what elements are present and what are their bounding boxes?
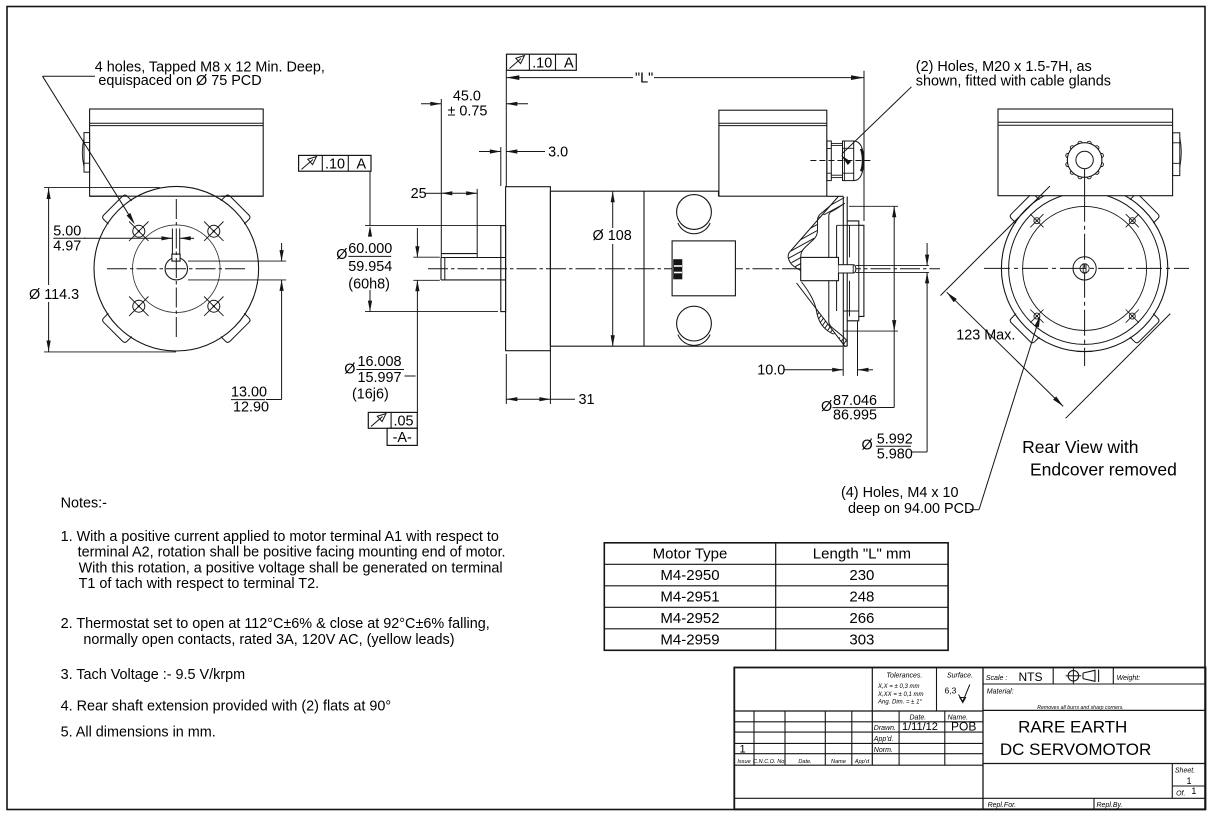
svg-text:shown, fitted with cable gland: shown, fitted with cable glands — [916, 74, 1111, 90]
front view shaft circle — [165, 258, 187, 280]
title block outline — [734, 668, 1205, 810]
side view endbell cone outer surface lower — [797, 283, 845, 346]
svg-text:230: 230 — [849, 567, 874, 584]
leader 2 holes M20 note — [842, 87, 912, 154]
dimension dia 87.046/86.995 rear spigot — [849, 205, 898, 207]
svg-text:X,X = ± 0,3 mm: X,X = ± 0,3 mm — [877, 684, 919, 690]
svg-text:Notes:-: Notes:- — [61, 495, 108, 511]
svg-text:Of.: Of. — [1176, 791, 1185, 798]
svg-text:Ø: Ø — [344, 362, 355, 378]
svg-text:4. Rear shaft extension provi: 4. Rear shaft extension provided with (2… — [61, 699, 392, 715]
drawing title — [983, 763, 1206, 765]
rear view housing circles — [1001, 185, 1167, 351]
front view vertical centerline — [175, 199, 177, 339]
svg-text:Name: Name — [831, 759, 846, 765]
svg-text:248: 248 — [849, 588, 874, 605]
svg-text:Ø: Ø — [862, 437, 873, 453]
rear view shaft end boss — [1073, 257, 1096, 280]
svg-text:1. With a positive current app: 1. With a positive current applied to mo… — [61, 529, 499, 545]
svg-text:Date.: Date. — [798, 759, 811, 765]
svg-text:1: 1 — [740, 743, 746, 755]
svg-text:.10: .10 — [532, 55, 552, 71]
svg-text:60.000: 60.000 — [348, 241, 392, 257]
rear view box side connector — [1173, 133, 1180, 176]
side view gland centerline — [810, 160, 872, 162]
side view endbell inner surface lower — [829, 281, 847, 342]
side view terminal stripe block — [673, 259, 682, 279]
rear view clamp bumps — [1130, 193, 1160, 223]
front view clamp bumps — [221, 194, 251, 224]
svg-text:86.995: 86.995 — [833, 408, 877, 424]
svg-text:5. All dimensions in mm.: 5. All dimensions in mm. — [61, 724, 216, 740]
svg-text:Sheet.: Sheet. — [1175, 768, 1195, 775]
svg-text:13.00: 13.00 — [231, 385, 267, 401]
title block left grid — [734, 710, 983, 712]
svg-text:Motor Type: Motor Type — [653, 546, 728, 563]
svg-text:Surface.: Surface. — [947, 672, 973, 679]
side view motor body outline — [550, 190, 718, 192]
rear view horizontal centerline — [984, 267, 1189, 269]
svg-text:X,XX = ± 0,1 mm: X,XX = ± 0,1 mm — [877, 692, 923, 698]
rear view gland centerline — [1084, 169, 1086, 196]
leader 4 holes M4 note — [979, 321, 1039, 510]
dimension 5.00/4.97 keyway width — [171, 229, 173, 255]
svg-text:303: 303 — [849, 631, 874, 648]
side view break line lower — [802, 282, 834, 334]
rear view M4 screw holes — [1034, 218, 1040, 224]
svg-text:3.0: 3.0 — [548, 144, 568, 160]
side view shaft — [440, 258, 442, 280]
svg-text:POB: POB — [951, 720, 976, 734]
scale weight row — [983, 683, 1206, 685]
svg-text:5.992: 5.992 — [877, 431, 913, 447]
svg-text:10.0: 10.0 — [757, 363, 785, 379]
side view endbell inner surface upper — [829, 204, 844, 258]
side view mounting flange — [506, 187, 551, 351]
svg-text:equispaced on Ø 75 PCD: equispaced on Ø 75 PCD — [98, 73, 261, 89]
svg-text:Drawn.: Drawn. — [874, 725, 896, 732]
side view rear shaft stub — [839, 265, 856, 273]
svg-text:6,3: 6,3 — [945, 685, 957, 695]
svg-text:Ø 108: Ø 108 — [593, 228, 632, 244]
svg-text:Endcover removed: Endcover removed — [1030, 460, 1177, 480]
front view pilot spigot circle — [133, 225, 221, 313]
svg-text:1: 1 — [1187, 776, 1192, 786]
sheet cell — [1171, 764, 1173, 799]
datum frame .05 runout — [368, 412, 417, 428]
svg-text:"L": "L" — [635, 70, 653, 86]
svg-text:A: A — [564, 56, 574, 72]
dimension 13.00/12.90 keyway depth — [188, 260, 286, 262]
side view shaft centerline — [428, 268, 940, 270]
dimension 45.0 +-0.75 shaft extension — [440, 99, 442, 258]
dimension dia 114.3 — [44, 187, 160, 189]
svg-text:16.008: 16.008 — [358, 354, 402, 370]
rear view vertical centerline — [1084, 196, 1086, 366]
side view break line upper — [801, 206, 831, 258]
svg-text:Rear View with: Rear View with — [1022, 437, 1138, 457]
svg-text:Norm.: Norm. — [874, 747, 893, 754]
svg-text:deep on 94.00 PCD: deep on 94.00 PCD — [848, 501, 974, 517]
svg-text:-A-: -A- — [393, 430, 412, 446]
svg-text:.05: .05 — [394, 413, 414, 429]
svg-text:Ø: Ø — [821, 399, 832, 415]
dimension 3.0 spigot protrusion — [500, 147, 502, 186]
side view endcover profile — [847, 221, 864, 321]
svg-text:25: 25 — [411, 186, 427, 202]
svg-text:M4-2950: M4-2950 — [660, 567, 719, 584]
svg-text:± 0.75: ± 0.75 — [448, 104, 488, 120]
side view shaft key — [441, 253, 477, 255]
svg-text:Issue: Issue — [737, 759, 750, 765]
svg-text:RARE EARTH: RARE EARTH — [1018, 718, 1127, 737]
side view cable gland — [827, 141, 831, 181]
svg-text:(60h8): (60h8) — [348, 277, 390, 293]
svg-text:Scale :: Scale : — [986, 675, 1007, 682]
svg-text:Ang. Dim. = ± 1°: Ang. Dim. = ± 1° — [877, 700, 922, 706]
dimension dia 5.992/5.980 rear stub — [926, 243, 928, 266]
svg-text:T1 of tach with respect to ter: T1 of tach with respect to terminal T2. — [79, 576, 319, 592]
svg-text:C.N.C.O. No.: C.N.C.O. No. — [753, 759, 786, 765]
svg-text:Removes all burrs and sharp co: Removes all burrs and sharp corners. — [1037, 705, 1124, 711]
front view motor housing outer circle — [94, 186, 259, 351]
material row — [983, 709, 1206, 711]
front view keyway square — [172, 254, 180, 261]
rear view cable gland scalloped nut — [1099, 162, 1103, 166]
svg-text:Material:: Material: — [987, 689, 1014, 696]
svg-text:(4) Holes, M4 x 10: (4) Holes, M4 x 10 — [841, 485, 959, 501]
svg-text:NTS: NTS — [1019, 670, 1043, 684]
svg-text:5.980: 5.980 — [877, 446, 913, 462]
side view rear face — [842, 197, 844, 347]
rear view gland inner circle — [1076, 151, 1093, 168]
svg-text:App'd.: App'd. — [873, 736, 894, 743]
motor type table — [604, 543, 948, 651]
svg-text:2. Thermostat set to open at 1: 2. Thermostat set to open at 112°C±6% & … — [61, 616, 490, 632]
svg-text:1: 1 — [1191, 786, 1196, 796]
repl row — [1093, 798, 1095, 809]
svg-text:59.954: 59.954 — [348, 259, 392, 275]
dimension 123 max across flats — [941, 186, 1050, 295]
svg-text:M4-2951: M4-2951 — [660, 588, 719, 605]
svg-text:15.997: 15.997 — [358, 370, 402, 386]
svg-text:12.90: 12.90 — [233, 399, 269, 415]
svg-text:123 Max.: 123 Max. — [956, 328, 1015, 344]
svg-text:Ø 114.3: Ø 114.3 — [29, 287, 79, 303]
svg-text:.10: .10 — [325, 156, 345, 172]
side view through-bolt heads — [677, 195, 712, 230]
front view box bottom edge — [90, 195, 124, 197]
side view front housing separator — [643, 191, 645, 346]
dimension 31 flange width — [505, 354, 507, 404]
svg-text:DC SERVOMOTOR: DC SERVOMOTOR — [1000, 740, 1151, 759]
svg-text:With this rotation, a positive: With this rotation, a positive voltage s… — [79, 560, 503, 576]
svg-text:87.046: 87.046 — [833, 393, 877, 409]
svg-text:Weight:: Weight: — [1117, 675, 1141, 682]
svg-text:M4-2952: M4-2952 — [660, 610, 719, 627]
front view terminal box — [90, 109, 264, 196]
side view endbell cone outer surface upper — [788, 197, 838, 271]
dimension dia 60.000/59.954 spigot — [369, 171, 371, 225]
svg-text:Repl.For.: Repl.For. — [988, 802, 1017, 809]
svg-text:Length "L" mm: Length "L" mm — [813, 546, 911, 563]
dimension L overall length — [505, 70, 507, 186]
svg-text:31: 31 — [579, 392, 595, 408]
title block main divider — [982, 668, 984, 810]
dimension dia 16.008/15.997 shaft — [413, 256, 440, 258]
svg-text:3. Tach Voltage :- 9.5 V/krpm: 3. Tach Voltage :- 9.5 V/krpm — [61, 667, 246, 683]
datum feature frame .10 A top — [507, 54, 577, 70]
front view horizontal centerline — [107, 268, 247, 270]
side view brush cover plate — [672, 241, 735, 296]
rear stub extension lines for dia 5.992 — [856, 265, 929, 267]
dimension 25 key length — [476, 189, 478, 258]
svg-text:45.0: 45.0 — [453, 89, 481, 105]
svg-text:5.00: 5.00 — [53, 223, 81, 239]
projection symbol — [1068, 671, 1079, 682]
svg-text:(16j6): (16j6) — [352, 387, 389, 403]
svg-text:1/11/12: 1/11/12 — [902, 721, 938, 733]
side view terminal box — [719, 110, 827, 196]
side view rear bearing boss — [801, 257, 839, 280]
side view endbell top edge — [827, 195, 844, 197]
datum feature frame .10 A left — [299, 155, 371, 171]
svg-text:Repl.By.: Repl.By. — [1097, 802, 1123, 809]
svg-text:A: A — [357, 157, 367, 173]
svg-text:266: 266 — [849, 610, 874, 627]
svg-text:M4-2959: M4-2959 — [660, 631, 719, 648]
side view pilot spigot — [501, 226, 506, 312]
dimension 10.0 rear cover — [842, 347, 844, 376]
dimension dia 108 body — [612, 191, 614, 228]
svg-text:Ø: Ø — [336, 247, 347, 263]
svg-text:App'd: App'd — [854, 759, 870, 765]
svg-text:Tolerances.: Tolerances. — [886, 672, 922, 679]
front view M8 tapped holes — [133, 225, 145, 237]
datum label -A- — [387, 428, 417, 445]
svg-text:terminal A2, rotation shall be: terminal A2, rotation shall be positive … — [78, 545, 506, 561]
svg-text:4.97: 4.97 — [53, 239, 81, 255]
leader 4 holes note — [43, 75, 96, 77]
rear view terminal box — [998, 109, 1173, 196]
front view side connector — [84, 133, 90, 173]
svg-text:normally open contacts, rated: normally open contacts, rated 3A, 120V A… — [83, 632, 454, 648]
